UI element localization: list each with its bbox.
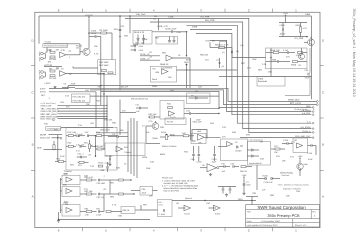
svg-text:B50K: B50K xyxy=(160,153,166,156)
svg-text:A: A xyxy=(32,195,34,199)
capacitor C4 47uF xyxy=(62,83,76,89)
wire blend output row xyxy=(184,108,220,109)
capacitor C18 .047 xyxy=(85,131,97,137)
wire feeder x96 xyxy=(95,92,97,128)
svg-text:R64B 2.2K: R64B 2.2K xyxy=(270,49,281,52)
svg-text:R5: R5 xyxy=(154,17,156,20)
net label SUB xyxy=(37,147,62,150)
svg-text:47uF: 47uF xyxy=(177,31,182,34)
svg-text:C62B: C62B xyxy=(280,24,286,27)
jack left enhancer xyxy=(53,141,55,150)
capacitor C74A 47uF xyxy=(307,144,316,155)
svg-text:B: B xyxy=(322,143,324,147)
svg-text:C58B: C58B xyxy=(271,59,277,62)
svg-text:GAIN: GAIN xyxy=(152,85,158,88)
svg-text:100n: 100n xyxy=(246,183,251,186)
channel switch box xyxy=(46,127,113,131)
svg-text:Input Jack: Input Jack xyxy=(38,70,41,81)
wire U1A output xyxy=(45,47,80,54)
svg-text:R13B: R13B xyxy=(263,175,269,178)
net label SUB_OUT xyxy=(40,137,62,140)
resistor R6 1M xyxy=(49,67,59,72)
svg-text:(C): (C) xyxy=(217,59,220,62)
svg-text:C 10uF: C 10uF xyxy=(159,213,166,216)
resistor R82 row mid xyxy=(80,190,97,195)
svg-text:(R): (R) xyxy=(212,40,215,43)
capacitor C62B 100uF xyxy=(279,23,307,37)
wire bias cluster top xyxy=(218,186,236,188)
capacitor C22A stack xyxy=(105,162,111,172)
title block company name xyxy=(257,205,306,210)
net label GRN xyxy=(41,104,108,107)
capacitor C45A xyxy=(219,162,230,173)
net label C57A xyxy=(140,53,160,56)
svg-text:+15V(A): +15V(A) xyxy=(44,40,51,43)
capacitor C100 100n xyxy=(243,181,251,187)
capacitor C41 on feed xyxy=(119,29,122,37)
svg-text:Send: Send xyxy=(152,78,158,81)
svg-text:100: 100 xyxy=(65,203,68,206)
svg-text:4.7uF: 4.7uF xyxy=(283,49,289,52)
wire Q1 base xyxy=(80,44,83,55)
svg-text:350x_Preamp_v2_sch-1 - Mon May: 350x_Preamp_v2_sch-1 - Mon May 19 14:19:… xyxy=(352,9,356,97)
svg-text:10uF: 10uF xyxy=(142,192,147,195)
power flag +15V output xyxy=(298,155,304,163)
svg-text:C13B 1uF: C13B 1uF xyxy=(264,181,274,184)
power flag +15VDC input stage xyxy=(85,14,93,33)
resistor R83 row mid ext xyxy=(110,193,135,195)
capacitor C52A 47uF xyxy=(152,28,187,33)
wire U2A output drop xyxy=(189,58,191,88)
bus wire 4 xyxy=(190,29,232,31)
svg-text:4.7K: 4.7K xyxy=(224,43,229,46)
transistor Q9 xyxy=(299,48,305,60)
capacitor C58B xyxy=(266,59,290,63)
bus wire 1 (+15_PRE) xyxy=(125,16,312,133)
resistor R7 xyxy=(49,75,57,80)
resistor R33 10K xyxy=(148,113,160,118)
net label BLK xyxy=(41,118,108,121)
label ACTIVE pad xyxy=(44,64,62,67)
svg-text:Please note:: Please note: xyxy=(162,177,174,180)
label Spares xyxy=(185,197,193,200)
resistor R50 1K xyxy=(240,166,252,173)
bus wire 5 xyxy=(196,34,312,115)
resistor R65B xyxy=(296,52,308,58)
resistor network R30/R31 box xyxy=(98,60,116,75)
svg-text:R50 1K: R50 1K xyxy=(240,170,247,173)
svg-text:Gain: Gain xyxy=(304,163,308,166)
bus wire 3 xyxy=(187,25,312,123)
wire U1B output xyxy=(66,73,105,75)
svg-text:R59 10K: R59 10K xyxy=(200,54,209,57)
resistor R19 xyxy=(96,131,117,137)
resistor R1 1M xyxy=(49,49,59,54)
svg-text:10K: 10K xyxy=(282,160,286,163)
rear panel connector pins xyxy=(300,105,314,133)
wire limiter feed lines xyxy=(218,145,243,148)
svg-text:Expander: Expander xyxy=(258,80,267,83)
wire tone bus vertical xyxy=(106,96,108,134)
svg-text:R41A: R41A xyxy=(161,131,167,134)
svg-text:1.07uF: 1.07uF xyxy=(296,54,303,57)
svg-text:+15V: +15V xyxy=(205,40,211,43)
wire effects return run xyxy=(219,76,312,78)
svg-text:47K: 47K xyxy=(66,106,70,109)
svg-text:U5A: U5A xyxy=(197,130,202,133)
zener diode ZD1 15V xyxy=(135,35,140,45)
signal bus wire A xyxy=(68,85,219,87)
svg-text:Input Jack: Input Jack xyxy=(38,52,41,63)
svg-text:than on the PCB.: than on the PCB. xyxy=(164,190,180,193)
diode pair D13 xyxy=(258,175,280,184)
power amp buffer U6 xyxy=(200,164,219,172)
right-side supply bus wire xyxy=(311,16,313,99)
op-amp U5A box xyxy=(191,134,206,144)
grid column numbers top xyxy=(58,8,297,12)
pot VR3 master volume xyxy=(160,131,177,148)
op-amp U1B xyxy=(60,68,67,77)
capacitor C16 .1 xyxy=(77,153,87,159)
capacitor C9A xyxy=(191,146,196,161)
svg-text:MUTE: MUTE xyxy=(40,133,47,136)
svg-text:B15_PRE: B15_PRE xyxy=(205,19,215,22)
grid row letters left xyxy=(32,39,35,199)
svg-text:+15V: +15V xyxy=(242,174,248,177)
svg-text:+15V: +15V xyxy=(283,12,289,15)
tone band op-amp MID xyxy=(62,184,80,197)
svg-text:C45_10uF: C45_10uF xyxy=(136,13,146,16)
capacitor C62 node xyxy=(222,48,233,58)
svg-text:Asymmetrical: Asymmetrical xyxy=(249,162,262,165)
svg-text:SUB: SUB xyxy=(37,147,42,150)
svg-text:R30 10K: R30 10K xyxy=(95,145,104,148)
capacitor C30 68n xyxy=(105,155,113,163)
op-amp U3A blend box xyxy=(160,101,184,120)
title block sheet row xyxy=(247,224,308,227)
svg-text:SEND_BUS: SEND_BUS xyxy=(288,99,300,102)
label Bass block xyxy=(64,201,69,206)
svg-text:1M: 1M xyxy=(52,119,55,122)
svg-text:+15V2: +15V2 xyxy=(44,82,51,85)
resistor R81 row high ext xyxy=(110,179,132,181)
capacitor C40A 10uF xyxy=(197,146,203,163)
decoupling block box 1 xyxy=(133,30,152,44)
title block outline xyxy=(246,205,320,227)
wire feeder x104 xyxy=(103,94,105,150)
net label MUTE xyxy=(40,133,62,136)
net label GND_BUS xyxy=(96,129,128,133)
pot block POT1/POT2 xyxy=(72,94,91,103)
svg-text:C50B: C50B xyxy=(192,26,198,29)
expander block box xyxy=(257,76,285,86)
svg-text:Preamp/Send Out/Send: Preamp/Send Out/Send xyxy=(44,45,68,48)
title block rev cell xyxy=(312,210,317,217)
svg-text:2xR: 2xR xyxy=(124,146,128,149)
svg-text:RET: RET xyxy=(41,94,46,97)
capacitor C46A xyxy=(231,162,240,168)
svg-text:POT1 (B) 10K: POT1 (B) 10K xyxy=(73,96,86,99)
zener diode ZD3 xyxy=(168,37,171,43)
signal bus wire B (A8_CH) xyxy=(75,86,316,102)
svg-text:4.7K: 4.7K xyxy=(112,204,117,207)
bus wire H xyxy=(136,121,138,178)
wire input node vertical xyxy=(101,33,112,60)
svg-text:100uF: 100uF xyxy=(91,32,98,35)
svg-text:TL072: TL072 xyxy=(170,116,176,119)
diode D5 block box xyxy=(187,90,211,103)
svg-text:C74A: C74A xyxy=(307,152,313,155)
capacitor C63 4.7uF xyxy=(279,49,295,54)
svg-text:GND: GND xyxy=(306,105,311,108)
svg-text:10K: 10K xyxy=(48,61,52,64)
svg-text:R33 10K: R33 10K xyxy=(149,113,158,116)
net label TR5 xyxy=(154,15,159,30)
svg-text:C7A: C7A xyxy=(149,120,154,123)
capacitor C70A xyxy=(282,139,296,145)
ground filter xyxy=(108,163,111,166)
svg-text:(A): (A) xyxy=(241,44,244,47)
svg-text:GRN: LOW: GRN: LOW xyxy=(41,104,53,107)
transistor Q1 xyxy=(76,44,90,55)
svg-text:47uF: 47uF xyxy=(139,45,144,48)
decoupling block box 2 xyxy=(156,37,178,45)
label Preamp/Send Out box xyxy=(43,40,68,47)
resistor R18 10K xyxy=(66,131,77,137)
svg-text:Last updated 10 February 2013: Last updated 10 February 2013 xyxy=(247,224,278,227)
resistor R64B 2.2K xyxy=(266,49,281,54)
filter op-amp box xyxy=(105,143,145,156)
wire expander to bus xyxy=(232,48,272,76)
net label SEND_BUS xyxy=(288,99,318,103)
grid column numbers bottom xyxy=(58,229,297,233)
svg-text:B:Pwr: B:Pwr xyxy=(40,91,46,94)
capacitor C+ 47uF xyxy=(131,45,144,48)
misc component value labels xyxy=(41,25,313,218)
zener diode ZD4 xyxy=(173,37,176,43)
svg-text:10K: 10K xyxy=(149,195,153,198)
net label C58A xyxy=(140,57,160,60)
svg-text:C52A_47uF: C52A_47uF xyxy=(165,28,177,31)
svg-text:+LB_PRE: +LB_PRE xyxy=(301,112,311,115)
aural enhancer block box xyxy=(66,127,117,170)
capacitor C80 row high xyxy=(97,179,111,185)
svg-text:PCB = 350043-L1 Production (wh: PCB = 350043-L1 Production (white) xyxy=(278,184,309,187)
svg-text:10K: 10K xyxy=(168,76,172,79)
resistor R84 row low xyxy=(80,208,97,217)
svg-text:+LB_PREB: +LB_PREB xyxy=(300,126,311,129)
svg-text:CHAN_A: CHAN_A xyxy=(302,130,311,133)
limiter block box xyxy=(221,139,248,161)
svg-text:(B): (B) xyxy=(236,50,239,53)
svg-text:+15VDC: +15VDC xyxy=(85,14,93,17)
capacitor C59 right column xyxy=(285,48,310,96)
op-amp U2B send xyxy=(151,66,177,82)
pot VR1 trimmer xyxy=(89,140,97,152)
label Stellar Riding Flat Pad xyxy=(280,171,294,177)
capacitor C15 1uF xyxy=(76,144,86,148)
effects blend section label xyxy=(131,97,149,100)
svg-text:RED: MID_HIGH: RED: MID_HIGH xyxy=(41,113,58,116)
svg-text:TR5 10K: TR5 10K xyxy=(104,119,113,122)
svg-text:SUB_OUT: SUB_OUT xyxy=(40,137,51,140)
svg-text:MID: MID xyxy=(63,184,67,187)
resistor R24A xyxy=(98,161,104,167)
svg-text:10K: 10K xyxy=(76,135,80,138)
svg-text:4.7K: 4.7K xyxy=(303,27,308,30)
resistor R2 xyxy=(49,56,57,61)
net label CHR_AMP_OUT xyxy=(240,135,314,138)
svg-text:47K: 47K xyxy=(222,136,226,139)
power flag +15V spare xyxy=(242,174,248,192)
svg-text:R42A: R42A xyxy=(142,156,148,159)
transistor Q7 xyxy=(297,163,308,176)
svg-text:R51A 4.7K: R51A 4.7K xyxy=(134,31,145,34)
svg-text:C44B: C44B xyxy=(133,44,139,47)
ground U6 xyxy=(209,173,212,176)
svg-text:C30 68n: C30 68n xyxy=(105,155,113,158)
transistor Q8 regulator xyxy=(294,36,314,46)
zener diode ZD2 15V xyxy=(141,35,145,45)
wire vertical x257 lower xyxy=(256,165,258,190)
svg-text:YEL: LOW_MID_A: YEL: LOW_MID_A xyxy=(41,107,59,110)
sheet border frame xyxy=(35,12,320,227)
wire pot feed xyxy=(100,74,105,106)
svg-text:(C): (C) xyxy=(222,51,225,54)
net label BRN xyxy=(41,115,108,118)
spare op-amp U9A xyxy=(178,205,191,215)
svg-text:Effects Blend Asy: Effects Blend Asy xyxy=(131,97,149,100)
svg-text:GND_BUS: GND_BUS xyxy=(100,129,111,132)
svg-text:C16_.1: C16_.1 xyxy=(77,153,84,156)
capacitor C97 xyxy=(229,187,232,194)
resistor R66B xyxy=(291,61,307,67)
svg-text:R7 10K: R7 10K xyxy=(49,77,57,80)
spare op-amp U9B xyxy=(209,205,222,215)
svg-text:TL072: TL072 xyxy=(167,120,174,123)
vertical junction column x95.5 xyxy=(95,136,96,157)
svg-text:Spares: Spares xyxy=(185,197,193,200)
svg-text:U2B: U2B xyxy=(155,71,160,74)
svg-text:10K: 10K xyxy=(120,129,124,132)
wire vertical feed x130 xyxy=(129,15,131,33)
svg-text:A8_CH: A8_CH xyxy=(121,86,128,89)
svg-text:10K: 10K xyxy=(86,103,90,106)
svg-text:+LB_MAIN: +LB_MAIN xyxy=(301,109,311,112)
junction dot on spare rail xyxy=(204,200,205,201)
svg-text:R3 100K: R3 100K xyxy=(100,29,109,32)
resistor R88 1K xyxy=(121,207,141,214)
bus wire E xyxy=(127,121,129,172)
junction box on bus xyxy=(220,42,227,49)
filename plot stamp (rotated) xyxy=(352,9,356,97)
svg-text:C80 .068: C80 .068 xyxy=(97,182,106,185)
wire CH3 out run xyxy=(177,69,238,70)
capacitor C31 .1uF xyxy=(136,103,149,113)
bus wire F xyxy=(130,118,132,174)
svg-text:R24A: R24A xyxy=(98,161,104,164)
capacitor C96 xyxy=(222,187,225,194)
wire feeder x120b xyxy=(119,100,121,136)
signal bus wire D xyxy=(101,91,312,107)
power flag +15V main xyxy=(283,12,289,22)
grid row letters right xyxy=(322,39,325,199)
resistor R30b 10K xyxy=(95,145,105,150)
svg-text:(Flat Pad): (Flat Pad) xyxy=(282,174,290,177)
resistor R20 row2 xyxy=(66,142,76,148)
svg-text:R88 1K: R88 1K xyxy=(123,209,130,212)
svg-text:4.7K: 4.7K xyxy=(94,53,99,56)
tone band op-amp LOW xyxy=(62,202,80,216)
resistor R86 row low xyxy=(106,211,122,213)
output buffer stack box xyxy=(158,200,173,217)
wire feeder x100 xyxy=(100,60,102,86)
notes text block xyxy=(162,177,198,193)
svg-text:10K: 10K xyxy=(286,195,290,198)
svg-text:1.0K: 1.0K xyxy=(85,214,90,217)
svg-text:+L/CH3OUT: +L/CH3OUT xyxy=(161,66,174,69)
op-amp U5A xyxy=(197,130,221,140)
svg-text:POT2 (B) 10K: POT2 (B) 10K xyxy=(73,99,86,102)
resistor R21 row4 xyxy=(78,161,89,167)
svg-text:C82 .01: C82 .01 xyxy=(97,196,105,199)
input jack J1 xyxy=(38,52,46,63)
capacitor C- 47uF xyxy=(131,49,144,52)
title block date row xyxy=(247,220,281,223)
title block title cell xyxy=(247,211,300,219)
resistor R60B 4.7K xyxy=(210,43,232,48)
svg-text:47uF: 47uF xyxy=(305,77,310,80)
capacitor C30A 100uF xyxy=(89,30,101,38)
wire Q1 collector to rail xyxy=(88,32,90,48)
svg-text:EFF_LOOP: EFF_LOOP xyxy=(290,102,302,105)
svg-text:R60B: R60B xyxy=(215,43,221,46)
grid tick marks top xyxy=(83,9,273,13)
net label C45B xyxy=(136,13,311,16)
ground bias cluster xyxy=(225,194,228,197)
svg-text:A:Pre: A:Pre xyxy=(40,87,46,90)
svg-text:47uF: 47uF xyxy=(60,155,65,158)
svg-text:CHR_AMP_OUT: CHR_AMP_OUT xyxy=(295,135,311,138)
compressor block box xyxy=(266,48,307,69)
svg-text:Limiter: Limiter xyxy=(235,150,242,153)
power +15V2 label xyxy=(44,82,51,85)
svg-text:+15V: +15V xyxy=(298,155,304,158)
capacitor C82 row mid xyxy=(97,193,111,199)
net label C8A_1uF xyxy=(191,118,203,140)
svg-text:10uF: 10uF xyxy=(143,38,148,41)
svg-text:GND: GND xyxy=(238,198,243,201)
wire tone out feeders xyxy=(104,180,110,212)
svg-text:1.0uF: 1.0uF xyxy=(96,214,102,217)
junction node (C)/(D) xyxy=(217,58,225,68)
svg-text:ORN: LOW_MID_B: ORN: LOW_MID_B xyxy=(41,110,60,113)
diode D3 xyxy=(108,133,128,138)
vertical feeder x88 xyxy=(57,135,58,162)
op-amp U8 output block xyxy=(293,138,308,153)
net label C50B xyxy=(157,25,169,28)
resistor R62B 4.7K xyxy=(296,23,308,37)
bus wire G xyxy=(133,118,135,176)
capacitor C44A xyxy=(212,146,218,163)
grid tick marks left xyxy=(31,66,35,171)
svg-text:HIGH: HIGH xyxy=(63,172,69,175)
svg-text:10K: 10K xyxy=(198,142,202,145)
grid tick marks bottom xyxy=(83,228,273,232)
svg-text:LM: LM xyxy=(195,90,198,93)
ground input stage xyxy=(53,86,56,89)
wire blend feed 47K xyxy=(120,110,136,113)
